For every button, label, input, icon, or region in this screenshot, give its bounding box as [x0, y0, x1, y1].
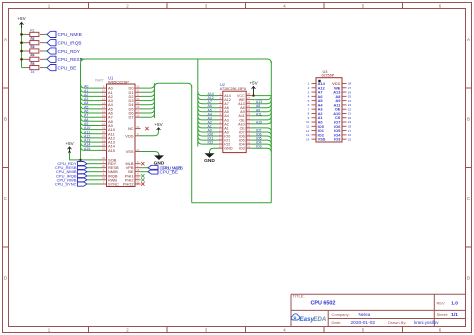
node IO3 (U2 right)	[256, 145, 262, 149]
wire D4 to data bus	[141, 101, 155, 105]
svg-text:B: B	[4, 117, 7, 122]
wire data-bus loop top	[155, 83, 192, 87]
svg-text:GND: GND	[204, 158, 215, 164]
node A11	[84, 130, 90, 134]
wire A14 to U1	[81, 142, 102, 146]
svg-text:PHO2: PHO2	[123, 182, 134, 187]
wire A4 to U1	[81, 101, 102, 105]
svg-text:1k: 1k	[31, 70, 35, 74]
wire CPU_RWB to U1	[87, 179, 101, 181]
+5V supply (SOB pull-up)	[65, 141, 74, 152]
no-connect PHO2 pin	[141, 182, 144, 185]
node A3	[84, 97, 88, 101]
svg-text:TITLE:: TITLE:	[293, 294, 305, 299]
svg-text:2020-01-02: 2020-01-02	[351, 320, 376, 326]
svg-text:+5V: +5V	[154, 122, 163, 127]
resistor R1 1k	[30, 29, 39, 41]
wire R2 to flag CPU_IRQB	[40, 42, 47, 44]
wire BE to flag	[141, 171, 149, 173]
svg-text:CPU_RESB: CPU_RESB	[58, 57, 83, 62]
junction +5V/SOB	[68, 151, 70, 153]
wire A11 to U1	[81, 130, 102, 134]
node A12	[84, 134, 90, 138]
svg-text:62256P: 62256P	[322, 74, 335, 78]
svg-text:R5: R5	[30, 62, 34, 66]
wire CPU_NMIB to U1	[87, 171, 101, 173]
node A5	[84, 105, 88, 109]
node A9	[84, 122, 88, 126]
op-amp U2 AT28C256-15PU EEPROM	[218, 82, 251, 153]
wire A7 to U1	[81, 113, 102, 117]
wire VDD to +5V	[141, 130, 159, 136]
wire IO0 to U2	[198, 132, 218, 136]
wire A5 to U2	[198, 108, 218, 112]
node A13	[84, 139, 90, 143]
wire IO2 to U2	[198, 140, 218, 144]
svg-text:R4: R4	[30, 54, 34, 58]
junction bus/SOB	[79, 159, 81, 161]
junction on +5V rail row 1	[20, 33, 23, 36]
node IO4 (U2 right)	[256, 141, 262, 145]
junction on +5V rail row 4	[20, 58, 23, 61]
wire IO7 to bus	[251, 132, 271, 136]
svg-text:CPU_NMIB: CPU_NMIB	[58, 32, 82, 37]
wire CPU_RDY to U1	[87, 163, 101, 165]
wire A0 to U2	[198, 128, 218, 132]
wire A8 to U1	[81, 117, 102, 121]
wire A12 to U1	[81, 134, 102, 138]
node A3 (U2)	[208, 116, 212, 120]
wire IO4 to bus	[251, 144, 271, 148]
svg-text:IO3: IO3	[334, 137, 341, 142]
net flag CPU_NMIB	[56, 169, 87, 174]
wire A11 to bus	[251, 112, 271, 116]
wire A14 to U2	[198, 91, 218, 95]
junction VCC/+5V	[252, 94, 254, 96]
svg-text:A10: A10	[256, 120, 262, 124]
wire A9 to bus	[251, 108, 271, 112]
wire CPU_IRQB to U1	[87, 175, 101, 177]
node IO0 (U2)	[208, 133, 214, 137]
+5V supply (U1 VDD)	[154, 122, 163, 130]
wire D5 to data bus	[141, 105, 155, 109]
wire data-bus loop right vertical	[191, 85, 193, 203]
no-connect NC pin U1	[145, 127, 148, 130]
svg-text:IO3: IO3	[239, 147, 245, 151]
svg-text:VDD: VDD	[125, 133, 133, 138]
wire A7 to U2	[198, 100, 218, 104]
wire U2 left bus vertical	[197, 59, 199, 147]
net flag CPU_RESB	[47, 56, 83, 62]
ground (U2 GND)	[204, 152, 215, 164]
wire +5V to R4	[22, 58, 30, 60]
net flag CPU_BE	[47, 65, 76, 71]
node A14 (U2)	[208, 92, 214, 96]
wire D2 to data bus	[141, 92, 155, 96]
wire data bus vertical (U1 right)	[154, 83, 156, 118]
wire CPU_RESB to U1	[87, 167, 101, 169]
svg-text:A11: A11	[256, 112, 262, 116]
resistor R5 1k	[30, 62, 39, 74]
svg-text:C: C	[4, 196, 7, 201]
svg-text:CPU_SYNC: CPU_SYNC	[55, 182, 77, 187]
node A2	[84, 93, 88, 97]
wire A13 to U1	[81, 138, 102, 142]
node A1 (U2)	[208, 124, 212, 128]
wire A13 to bus	[251, 100, 271, 104]
node A1	[84, 89, 88, 93]
node IO6 (U2 right)	[256, 133, 262, 137]
svg-text:D7: D7	[129, 115, 134, 120]
svg-text:EDA: EDA	[313, 316, 327, 323]
svg-text:CPU_BE: CPU_BE	[160, 169, 178, 174]
wire R5 to flag CPU_BE	[40, 67, 47, 69]
wire main bus top horizontal	[81, 59, 272, 63]
svg-text:A15: A15	[108, 148, 115, 153]
net flag CPU_RDY	[57, 161, 87, 166]
svg-text:25: 25	[102, 147, 106, 151]
net flag CPU_RESB	[55, 165, 87, 170]
svg-text:A15: A15	[84, 147, 90, 151]
svg-text:PART: PART	[95, 79, 104, 83]
svg-text:CPU_RDY: CPU_RDY	[58, 49, 81, 54]
svg-text:1/1: 1/1	[451, 312, 458, 318]
resistor R4 1k	[30, 54, 39, 66]
svg-text:+5V: +5V	[17, 16, 26, 21]
node IO5 (U2 right)	[256, 137, 262, 141]
junction on +5V rail row 3	[20, 50, 23, 53]
svg-text:D: D	[467, 276, 470, 281]
svg-text:A: A	[467, 37, 470, 42]
wire +5V to R2	[22, 42, 30, 44]
+5V supply (U2 VCC)	[249, 81, 258, 96]
svg-text:R3: R3	[30, 45, 34, 49]
svg-text:CPU_BE: CPU_BE	[58, 65, 77, 70]
net flag CPU_BE	[148, 169, 178, 174]
node IO1 (U2)	[208, 137, 214, 141]
wire R1 to flag CPU_NMIB	[40, 33, 47, 35]
svg-text:1.0: 1.0	[451, 301, 458, 307]
svg-text:39: 39	[136, 180, 140, 184]
net flag CPU_IRQB	[56, 173, 87, 178]
svg-text:14: 14	[306, 137, 310, 141]
svg-text:VSS: VSS	[318, 137, 326, 142]
wire A2 to U1	[81, 92, 102, 96]
node A8	[84, 118, 88, 122]
wire A6 to U2	[198, 104, 218, 108]
node A12 (U2)	[208, 96, 214, 100]
svg-text:R2: R2	[30, 37, 34, 41]
svg-text:+5V: +5V	[65, 141, 74, 146]
wire A4 to U2	[198, 112, 218, 116]
wire R3 to flag CPU_RDY	[40, 50, 47, 52]
wire IO3 to bus	[251, 148, 271, 152]
wire IO1 to U2	[198, 136, 218, 140]
wire +5V to R1	[22, 33, 30, 35]
svg-text:VSS: VSS	[126, 149, 134, 154]
net flag CPU_RDY	[47, 48, 81, 54]
wire A8 to bus	[251, 104, 271, 108]
wire VSS to GND	[141, 152, 160, 156]
svg-text:D: D	[4, 276, 7, 281]
node A0	[84, 85, 88, 89]
svg-text:SYNC: SYNC	[108, 182, 119, 187]
op-amp U3 62256P SRAM	[306, 69, 352, 142]
svg-text:R1: R1	[30, 29, 34, 33]
wire VCC to +5V and bus	[251, 95, 271, 97]
wire A3 to U1	[81, 96, 102, 100]
wire IO5 to bus	[251, 140, 271, 144]
wire A10 to bus	[251, 120, 271, 124]
node A8 (U2 right)	[256, 104, 260, 108]
svg-text:REV: REV	[437, 300, 446, 305]
svg-text:GND: GND	[224, 147, 233, 151]
wire R4 to flag CPU_RESB	[40, 58, 47, 60]
node A6	[84, 110, 88, 114]
wire CPU_SYNC to U1	[87, 183, 101, 185]
wire A5 to U1	[81, 105, 102, 109]
svg-text:+5V: +5V	[249, 81, 258, 86]
node A10	[84, 126, 90, 130]
svg-text:21: 21	[136, 148, 140, 152]
node IO2 (U2)	[208, 141, 214, 145]
node A9 (U2 right)	[256, 108, 260, 112]
wire D6 to data bus	[141, 109, 155, 113]
node A7	[84, 114, 88, 118]
net flag CPU_NMIB	[47, 31, 82, 37]
svg-text:A: A	[4, 37, 7, 42]
no-connect PHI2 pin	[141, 178, 144, 181]
node A0 (U2)	[208, 128, 212, 132]
node A4 (U2)	[208, 112, 212, 116]
no-connect PHI1 pin	[141, 174, 144, 177]
svg-text:NC: NC	[128, 126, 134, 131]
net flag CPU_SYNC	[55, 182, 87, 187]
svg-text:15: 15	[247, 145, 251, 149]
svg-text:36: 36	[136, 125, 140, 129]
svg-text:CPU 6502: CPU 6502	[311, 301, 336, 307]
junction on +5V rail row 2	[20, 41, 23, 44]
svg-text:IO3: IO3	[256, 145, 262, 149]
node A15	[84, 147, 90, 151]
wire IO6 to bus	[251, 136, 271, 140]
svg-text:26: 26	[136, 113, 140, 117]
wire +5V to R5	[22, 67, 30, 69]
+5V supply (pull-up rail)	[17, 16, 26, 28]
wire A2 to U2	[198, 120, 218, 124]
node A7 (U2)	[208, 100, 212, 104]
wire A6 to U1	[81, 109, 102, 113]
wire A3 to U2	[198, 116, 218, 120]
resistor R2 1k	[30, 37, 39, 49]
wire D7 to data bus	[141, 113, 155, 117]
wire A1 to U2	[198, 124, 218, 128]
svg-text:Company:: Company:	[332, 312, 350, 317]
svg-text:Netea: Netea	[359, 312, 371, 317]
node A5 (U2)	[208, 108, 212, 112]
ground (U1 VSS)	[154, 154, 165, 166]
resistor R3 1k	[30, 45, 39, 57]
svg-text:15: 15	[348, 137, 352, 141]
wire VPB to flag	[141, 167, 149, 169]
node A2 (U2)	[208, 120, 212, 124]
node A10 (U2 right)	[256, 120, 262, 124]
wire A15 to U1	[81, 146, 102, 150]
svg-text:CPU_IRQB: CPU_IRQB	[58, 41, 82, 46]
wire bus bottom horizontal	[192, 202, 272, 204]
node A11 (U2 right)	[256, 112, 262, 116]
wire main bus right vertical	[270, 61, 272, 203]
svg-text:Sheet:: Sheet:	[437, 312, 449, 317]
node A13 (U2 right)	[256, 100, 262, 104]
net flag CPU_IRQB	[47, 40, 81, 46]
node A4	[84, 101, 88, 105]
wire U2 GND pin to ground	[210, 148, 219, 152]
wire address bus vertical (U1 left)	[81, 59, 86, 160]
wire D3 to data bus	[141, 96, 155, 100]
wire A12 to U2	[198, 95, 218, 99]
svg-text:14: 14	[219, 145, 223, 149]
wire +5V to SOB pin	[70, 152, 102, 160]
wire A0 to U1	[81, 84, 102, 88]
svg-text:B: B	[467, 117, 470, 122]
wire A9 to U1	[81, 121, 102, 125]
svg-text:krani.yosifov: krani.yosifov	[414, 320, 439, 325]
wire +5V rail vertical	[21, 28, 23, 68]
wire A1 to U1	[81, 88, 102, 92]
svg-text:C: C	[467, 196, 470, 201]
net flag CPU_RWB	[57, 177, 87, 182]
wire OE to bus	[251, 116, 271, 120]
svg-text:Date:: Date:	[332, 320, 342, 325]
wire WE to bus	[251, 95, 271, 99]
svg-text:IO2: IO2	[208, 141, 214, 145]
no-connect MLB pin	[141, 162, 144, 165]
node A14	[84, 143, 90, 147]
wire D0 to data bus	[141, 84, 155, 88]
net flag CPU_VPB (overlapping CPU_MLB)	[148, 165, 183, 170]
node IO7 (U2 right)	[256, 128, 262, 132]
wire D1 to data bus	[141, 88, 155, 92]
node A6 (U2)	[208, 104, 212, 108]
wire +5V to R3	[22, 50, 30, 52]
op-amp U1 W65C02SP CPU	[95, 75, 141, 186]
wire A10 to U1	[81, 125, 102, 129]
svg-text:Drawn By:: Drawn By:	[388, 320, 406, 325]
svg-text:AT28C256-15PU: AT28C256-15PU	[220, 87, 247, 91]
wire CE to bus	[251, 128, 271, 132]
